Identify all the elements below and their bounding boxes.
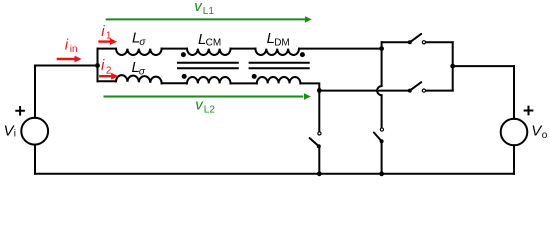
svg-text:DM: DM <box>274 38 290 49</box>
svg-text:o: o <box>542 130 548 141</box>
svg-text:CM: CM <box>206 38 222 49</box>
svg-text:1: 1 <box>106 30 112 41</box>
svg-text:L1: L1 <box>203 6 215 17</box>
svg-text:L2: L2 <box>204 105 216 116</box>
svg-text:σ: σ <box>139 67 146 78</box>
svg-text:in: in <box>70 44 78 55</box>
svg-text:i: i <box>14 129 16 140</box>
svg-text:2: 2 <box>106 65 112 76</box>
svg-text:σ: σ <box>139 37 146 48</box>
